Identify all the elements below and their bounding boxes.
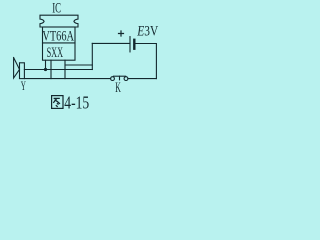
IC pin 1 (to speaker node W1) <box>45 60 47 69</box>
wire: riser from supply wire down to W1 <box>91 43 93 69</box>
caption 图 glyph (hand drawn) <box>52 96 63 109</box>
switch K actuator stem <box>119 76 121 80</box>
wire: battery negative down to bottom rail <box>135 44 157 79</box>
wire W1: speaker top terminal across to riser <box>24 69 92 71</box>
wire: supply wire from riser to battery positive <box>92 42 130 44</box>
node: junction dot pin1/W1 <box>44 68 47 71</box>
switch K lever bar <box>114 75 126 77</box>
label + (battery polarity) <box>118 30 124 36</box>
svg-text:SXX: SXX <box>47 43 64 60</box>
switch K terminal circle left <box>111 77 115 81</box>
wire: branch from pin3 to riser <box>65 64 92 66</box>
wire: bottom rail left of switch K <box>24 78 110 80</box>
switch K terminal circle right <box>124 77 128 81</box>
svg-text:IC: IC <box>52 0 61 16</box>
wire: body divider between VT66A and SXX <box>43 42 76 44</box>
speaker Y driver rectangle <box>20 63 25 79</box>
svg-text:K: K <box>115 78 121 96</box>
svg-text:VT66A: VT66A <box>42 28 74 44</box>
IC pin 3 <box>64 60 66 78</box>
svg-text:E3V: E3V <box>136 22 158 39</box>
battery E negative plate (short, thick) <box>133 40 135 49</box>
wire: bottom rail right of switch K <box>128 78 156 80</box>
IC body U1 VT66A/SXX <box>43 27 76 60</box>
IC pin 2 <box>50 60 52 78</box>
svg-text:4-15: 4-15 <box>64 94 89 113</box>
IC package head (notched top cap) <box>40 15 78 27</box>
svg-text:Y: Y <box>21 80 26 94</box>
background <box>0 0 161 114</box>
speaker Y cone <box>14 58 20 79</box>
battery E positive plate (long) <box>129 37 131 52</box>
